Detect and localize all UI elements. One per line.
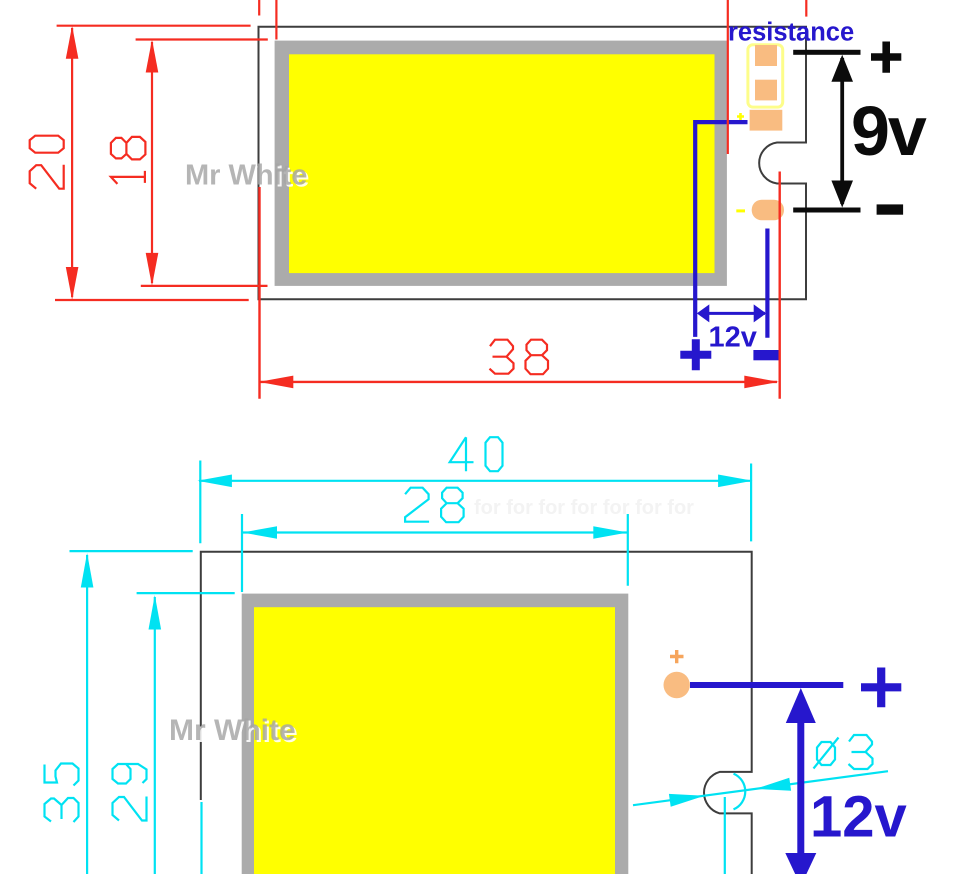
black minus symbol (9v) (877, 204, 904, 214)
svg-text:resistance: resistance (728, 19, 854, 47)
blue plus symbol (bottom 12v) (861, 668, 901, 708)
orange small + mark (670, 650, 684, 663)
dim 20: label (30, 136, 64, 189)
yellow - polarity mark (736, 209, 745, 212)
black plus symbol (9v) (871, 42, 901, 73)
12v vertical double arrow (bottom) (797, 700, 804, 860)
dia3 label (814, 735, 873, 769)
dim 35: arrow line (86, 555, 88, 874)
hole dia3: cyan arc in notch (734, 774, 746, 810)
svg-text:12v: 12v (810, 785, 907, 850)
dia3 leader line (633, 771, 888, 805)
dim 28: extension lines (241, 514, 243, 592)
dim 28: arrow line (243, 531, 627, 533)
dim 18: label (111, 137, 145, 184)
yellow + polarity mark (737, 113, 744, 120)
gray emitting-area frame (bottom module) (242, 594, 629, 875)
dim 29: extension line (137, 592, 235, 594)
dim 40: extension lines (199, 461, 201, 544)
svg-text:for for for for for for for: for for for for for for for (474, 497, 694, 519)
dim 35: extension line (70, 550, 193, 552)
12v dimension arrows (top) (699, 312, 765, 315)
resistor pad 1 (755, 45, 777, 66)
gray emitting-area frame (top module) (275, 41, 727, 286)
svg-text:12v: 12v (709, 322, 757, 354)
dim 20: extension lines (57, 25, 251, 27)
svg-text:9v: 9v (851, 92, 927, 170)
yellow phosphor LED area (top module) (289, 54, 715, 273)
dim 28: label (405, 488, 464, 523)
dim 20: arrow line (71, 28, 73, 297)
svg-text:Mr White: Mr White (169, 714, 296, 747)
dim 38: arrow line (260, 381, 777, 383)
blue wire from + pad (695, 122, 747, 337)
red construction line top-left b (275, 0, 277, 40)
orange + pad circle (bottom module) (664, 672, 690, 698)
solder pad (-) stadium (752, 200, 784, 221)
blue wire from - pad (765, 229, 769, 338)
9v top tick (793, 50, 860, 55)
cyan continuation of left edge (200, 802, 202, 874)
hole centerline (724, 797, 726, 874)
dim 38: extension lines (258, 187, 260, 399)
blue minus symbol (12v) (753, 350, 779, 360)
red construction line top-right a (727, 0, 729, 154)
blue wire from + pad (bottom) (690, 682, 843, 688)
9v double arrow (840, 58, 844, 204)
9v bottom tick (793, 208, 860, 213)
red construction line top-right b (805, 0, 807, 17)
dim 18: extension lines (136, 38, 268, 40)
dim 35: label (45, 764, 79, 823)
red construction line top-left a (258, 0, 260, 16)
solder pad 3 (+) (750, 110, 783, 131)
PCB board outline (top module, 20x40) (259, 27, 807, 300)
blue plus symbol (12v) (680, 339, 711, 370)
dim 29: arrow line (154, 597, 156, 874)
dim 40: arrow line (199, 480, 752, 482)
resistor outline (pale yellow) (748, 45, 783, 107)
resistor pad 2 (755, 80, 777, 101)
PCB board outline (bottom module, 35x40) (201, 552, 752, 874)
dim 40: label (450, 437, 503, 471)
dim 29: label (113, 764, 147, 821)
dim 38: label (490, 340, 549, 375)
dim 18: arrow line (151, 42, 153, 283)
yellow phosphor LED area (bottom module) (254, 607, 615, 874)
svg-text:Mr White: Mr White (185, 160, 307, 192)
